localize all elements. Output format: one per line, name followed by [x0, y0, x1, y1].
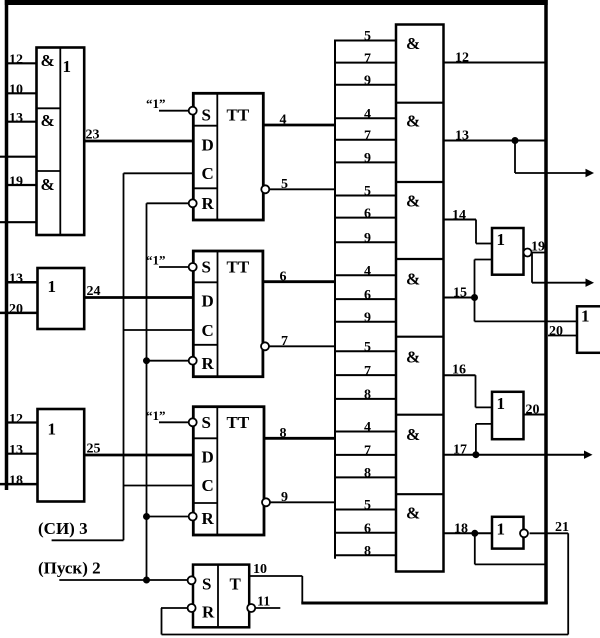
- svg-text:C: C: [202, 476, 214, 495]
- AND gate divider 4-5: [396, 336, 444, 338]
- wire rung 7 g6: [334, 454, 396, 456]
- AND gate divider 3-4: [396, 258, 444, 260]
- svg-text:8: 8: [280, 426, 287, 441]
- wire start (Pusk) horizontal: [59, 579, 187, 581]
- bubble FF1 R input: [189, 199, 197, 207]
- wire ladder left rail: [334, 41, 336, 559]
- svg-text:4: 4: [364, 107, 371, 122]
- wire input 18 (to DD3): [0, 483, 39, 486]
- OR gate DD2 box: [38, 268, 85, 329]
- svg-text:17: 17: [453, 443, 467, 458]
- svg-text:&: &: [406, 504, 420, 523]
- svg-text:C: C: [202, 321, 214, 340]
- wire rung 8 g5: [334, 398, 396, 400]
- bus right thick vertical: [544, 0, 548, 604]
- wire rung 7 g5: [334, 374, 396, 376]
- svg-text:9: 9: [364, 310, 371, 325]
- wire rung 4 g6: [334, 431, 396, 433]
- wire FF2 S input: [159, 266, 189, 268]
- wire rung 8 g7: [334, 554, 396, 556]
- wire rung 9 g3: [334, 241, 396, 243]
- svg-text:7: 7: [364, 444, 371, 459]
- svg-text:“1”: “1”: [146, 408, 166, 423]
- AND-OR gate DD1 cell divider 2: [37, 170, 61, 172]
- wire external stub A: [0, 156, 38, 158]
- AND gate divider 6-7: [396, 493, 444, 495]
- wire rung 8 g6: [334, 476, 396, 478]
- svg-text:9: 9: [364, 151, 371, 166]
- svg-text:D: D: [202, 136, 214, 155]
- svg-text:1: 1: [497, 394, 506, 413]
- svg-text:20: 20: [9, 302, 23, 317]
- wire net 15 into G19: [475, 259, 493, 261]
- svg-text:24: 24: [87, 284, 101, 299]
- svg-text:13: 13: [9, 111, 23, 126]
- wire FF1 R input: [147, 202, 189, 204]
- flip-flop FF1 divider: [216, 93, 218, 220]
- svg-text:21: 21: [555, 520, 569, 535]
- wire net 20 output to bus: [524, 414, 547, 416]
- wire net 17 rise: [475, 424, 477, 455]
- svg-text:1: 1: [48, 420, 57, 439]
- wire net 23 output DD1 to FF1 D: [84, 140, 193, 143]
- flip-flop FF2 S row divider: [193, 281, 217, 283]
- wire net 16: [444, 374, 476, 376]
- wire input 20 (to DD2): [0, 312, 39, 315]
- NOR gate G19 box: [492, 228, 524, 275]
- wire net 18 to bus: [475, 563, 546, 565]
- svg-text:R: R: [202, 509, 215, 528]
- wire rung 9 g4: [334, 321, 396, 323]
- svg-text:10: 10: [253, 562, 267, 577]
- inverter G21 box: [492, 517, 524, 549]
- wire net 10 vertical drop: [301, 576, 303, 603]
- svg-text:TT: TT: [227, 413, 250, 432]
- svg-text:S: S: [202, 413, 211, 432]
- OR gate G20 box: [492, 392, 524, 439]
- svg-text:18: 18: [9, 473, 23, 488]
- svg-text:23: 23: [86, 128, 100, 143]
- wire input 12: [7, 62, 38, 64]
- svg-text:9: 9: [364, 73, 371, 88]
- svg-text:D: D: [202, 292, 214, 311]
- wire clock vertical (CI line): [123, 173, 125, 540]
- wire net 19 drop: [531, 253, 533, 283]
- svg-text:(Пуск) 2: (Пуск) 2: [38, 559, 101, 578]
- wire input 12 (to DD3): [7, 421, 39, 423]
- svg-text:7: 7: [364, 51, 371, 66]
- bubble G19 output: [524, 249, 532, 257]
- flip-flop T divider: [217, 565, 219, 628]
- frame left thick border: [5, 0, 9, 490]
- node junction net 13: [512, 138, 518, 144]
- bubble FF2 R input: [189, 357, 197, 365]
- flip-flop FF2 box: [193, 251, 263, 377]
- wire rung 6 g3: [334, 217, 396, 219]
- flip-flop FF3 S row divider: [193, 437, 217, 439]
- wire net 21 bottom return: [162, 634, 569, 636]
- svg-text:8: 8: [364, 544, 371, 559]
- wire input 13: [7, 121, 38, 123]
- flip-flop FF1 S row divider: [193, 125, 217, 127]
- wire net 17 into G20: [476, 423, 492, 425]
- svg-text:4: 4: [364, 264, 371, 279]
- wire net 14: [444, 219, 477, 221]
- svg-text:6: 6: [364, 288, 371, 303]
- svg-text:6: 6: [364, 521, 371, 536]
- svg-text:1: 1: [497, 520, 506, 539]
- wire rung 5 g1: [334, 40, 396, 42]
- svg-text:4: 4: [364, 420, 371, 435]
- svg-text:1: 1: [63, 57, 72, 76]
- wire net 19 to bus: [532, 252, 547, 254]
- wire input 19: [7, 184, 38, 186]
- svg-text:20: 20: [549, 324, 563, 339]
- bubble FF3 notQ output: [262, 498, 270, 506]
- svg-text:8: 8: [364, 466, 371, 481]
- AND gate divider 1-2: [396, 102, 444, 104]
- svg-text:13: 13: [9, 443, 23, 458]
- wire net 19 arrow out: [532, 282, 588, 284]
- flip-flop T box: [193, 565, 249, 628]
- wire rung 7 g1: [334, 62, 396, 64]
- svg-text:&: &: [406, 34, 420, 53]
- wire net 13 drop: [514, 141, 516, 174]
- arrow head net 13: [586, 169, 595, 177]
- wire rung 5 g7: [334, 509, 396, 511]
- wire rung 5 g3: [334, 195, 396, 197]
- wire clock horizontal (CI): [52, 539, 124, 541]
- wire rung 9 g2: [334, 161, 396, 163]
- bubble T notQ output: [247, 604, 255, 612]
- flip-flop FF1 R row divider: [193, 187, 217, 189]
- wire net 16 into G20: [476, 406, 493, 408]
- wire external stub B: [0, 221, 38, 223]
- wire input 13 (to DD2): [7, 281, 39, 284]
- OR gate far right box: [577, 306, 600, 353]
- wire input 10: [7, 92, 38, 94]
- flip-flop FF3 divider: [216, 407, 218, 535]
- svg-text:9: 9: [281, 490, 288, 505]
- node junction net 15: [472, 295, 478, 301]
- svg-text:5: 5: [281, 177, 288, 192]
- svg-text:&: &: [406, 192, 420, 211]
- AND-OR gate DD1 cell divider 1: [37, 107, 61, 109]
- svg-text:9: 9: [364, 231, 371, 246]
- wire FF1 C input: [124, 172, 194, 174]
- svg-text:19: 19: [9, 174, 23, 189]
- wire rung 4 g4: [334, 274, 396, 276]
- svg-text:D: D: [202, 448, 214, 467]
- svg-text:(СИ) 3: (СИ) 3: [38, 519, 88, 538]
- wire net 18 drop: [474, 533, 476, 564]
- wire bottom thick: [301, 602, 547, 605]
- wire net 9 FF3 notQ output: [270, 501, 335, 503]
- svg-text:&: &: [41, 175, 55, 194]
- OR gate DD3 box: [38, 409, 85, 502]
- svg-text:S: S: [202, 258, 211, 277]
- bubble FF2 S input: [189, 263, 197, 271]
- wire net 12: [444, 62, 547, 64]
- svg-text:S: S: [202, 106, 211, 125]
- svg-text:12: 12: [9, 53, 23, 68]
- flip-flop FF2 R row divider: [193, 344, 217, 346]
- svg-text:&: &: [41, 51, 55, 70]
- wire reset vertical: [146, 203, 148, 580]
- AND-OR gate DD1 inner divider: [59, 48, 61, 236]
- flip-flop FF3 box: [193, 407, 264, 535]
- svg-text:19: 19: [531, 240, 545, 255]
- node junction net 18: [472, 530, 478, 536]
- svg-text:&: &: [406, 112, 420, 131]
- bubble FF2 notQ output: [261, 342, 269, 350]
- frame top thick border: [5, 0, 548, 5]
- flip-flop FF3 R row divider: [193, 502, 217, 504]
- wire net 15 vertical: [474, 260, 476, 322]
- flip-flop FF2 divider: [217, 251, 219, 377]
- wire net 21 right vertical: [567, 533, 569, 634]
- wire net 17 arrow out: [444, 454, 587, 456]
- bubble FF3 R input: [189, 513, 197, 521]
- svg-text:&: &: [41, 111, 55, 130]
- svg-text:10: 10: [9, 83, 23, 98]
- wire rung 6 g7: [334, 532, 396, 534]
- wire rung 5 g5: [334, 350, 396, 352]
- node junction net 17: [473, 452, 479, 458]
- arrow head net 19: [586, 279, 595, 287]
- svg-text:5: 5: [364, 340, 371, 355]
- svg-text:4: 4: [280, 113, 287, 128]
- flip-flop FF1 box: [193, 93, 263, 220]
- arrow head net 17: [584, 451, 593, 459]
- wire net 11 stub: [255, 607, 280, 609]
- wire rung 9 g1: [334, 84, 396, 86]
- wire net 15 to far OR gate: [475, 320, 578, 322]
- svg-text:5: 5: [364, 498, 371, 513]
- svg-text:6: 6: [364, 206, 371, 221]
- svg-text:&: &: [406, 348, 420, 367]
- bubble FF1 notQ output: [261, 185, 269, 193]
- svg-text:1: 1: [48, 277, 57, 296]
- wire rung 4 g2: [334, 117, 396, 119]
- wire input 13 (to DD3): [7, 453, 39, 455]
- wire net 13 arrow out: [515, 172, 588, 174]
- bubble G21 output: [520, 529, 528, 537]
- svg-text:12: 12: [455, 51, 469, 66]
- wire net 24 output DD2 to FF2 D: [84, 296, 193, 299]
- wire net 14 drop: [475, 220, 477, 244]
- bubble FF1 S input: [189, 107, 197, 115]
- svg-text:14: 14: [452, 208, 466, 223]
- wire net 25 output DD3 to FF3 D: [84, 454, 193, 457]
- svg-text:C: C: [202, 164, 214, 183]
- AND gate divider 2-3: [396, 181, 444, 183]
- AND gate divider 5-6: [396, 414, 444, 416]
- wire T R input: [161, 607, 188, 609]
- wire net 5 FF1 notQ output: [269, 188, 335, 190]
- wire net 21 out: [530, 532, 569, 534]
- svg-text:T: T: [230, 575, 242, 594]
- svg-text:5: 5: [364, 184, 371, 199]
- wire FF3 R input: [147, 516, 189, 518]
- svg-text:1: 1: [497, 230, 506, 249]
- bubble T R input: [188, 604, 196, 612]
- svg-text:7: 7: [364, 129, 371, 144]
- wire net 15: [444, 297, 475, 299]
- svg-text:7: 7: [281, 334, 288, 349]
- svg-text:16: 16: [452, 363, 466, 378]
- wire net 8 FF3 Q output: [264, 437, 335, 440]
- svg-text:25: 25: [87, 442, 101, 457]
- svg-text:12: 12: [9, 412, 23, 427]
- svg-text:R: R: [202, 354, 215, 373]
- wire FF3 C input: [124, 485, 194, 487]
- wire net 13: [444, 140, 547, 142]
- wire net 14 into G19: [476, 243, 492, 245]
- svg-text:6: 6: [280, 270, 287, 285]
- wire T R input vertical: [161, 608, 163, 635]
- wire FF3 S input: [159, 421, 189, 423]
- node junction start/reset: [144, 577, 150, 583]
- svg-text:R: R: [202, 603, 215, 622]
- wire net 7 FF2 notQ output: [269, 345, 335, 347]
- AND-OR gate DD1 box: [37, 48, 85, 236]
- svg-text:&: &: [406, 270, 420, 289]
- svg-text:S: S: [202, 575, 211, 594]
- wire FF1 S input: [159, 110, 189, 112]
- svg-text:11: 11: [257, 595, 270, 610]
- svg-text:18: 18: [454, 522, 468, 537]
- wire net 6 FF2 Q output: [263, 280, 335, 283]
- svg-text:TT: TT: [227, 106, 250, 125]
- AND column outer box: [396, 25, 444, 572]
- svg-text:TT: TT: [227, 258, 250, 277]
- wire net 16 drop: [475, 375, 477, 407]
- svg-text:8: 8: [364, 388, 371, 403]
- svg-text:20: 20: [526, 403, 540, 418]
- svg-text:15: 15: [453, 286, 467, 301]
- svg-text:R: R: [202, 194, 215, 213]
- bubble T S input: [188, 576, 196, 584]
- svg-text:7: 7: [364, 364, 371, 379]
- svg-text:“1”: “1”: [146, 96, 166, 111]
- svg-text:5: 5: [364, 29, 371, 44]
- svg-text:13: 13: [455, 129, 469, 144]
- svg-text:1: 1: [581, 307, 590, 326]
- wire rung 7 g2: [334, 139, 396, 141]
- node junction on FF2 R: [144, 358, 150, 364]
- wire FF2 C input: [124, 329, 194, 331]
- svg-text:“1”: “1”: [146, 253, 166, 268]
- node junction on FF3 R: [144, 514, 150, 520]
- wire net 4 FF1 Q output: [263, 124, 335, 127]
- wire net 18: [444, 532, 493, 534]
- svg-text:&: &: [406, 425, 420, 444]
- wire FF2 R input: [147, 360, 189, 362]
- bubble FF3 S input: [189, 418, 197, 426]
- svg-text:13: 13: [9, 272, 23, 287]
- wire net 20 from bus to far OR gate: [548, 335, 577, 337]
- wire rung 6 g4: [334, 298, 396, 300]
- wire net 10 T output: [249, 575, 302, 577]
